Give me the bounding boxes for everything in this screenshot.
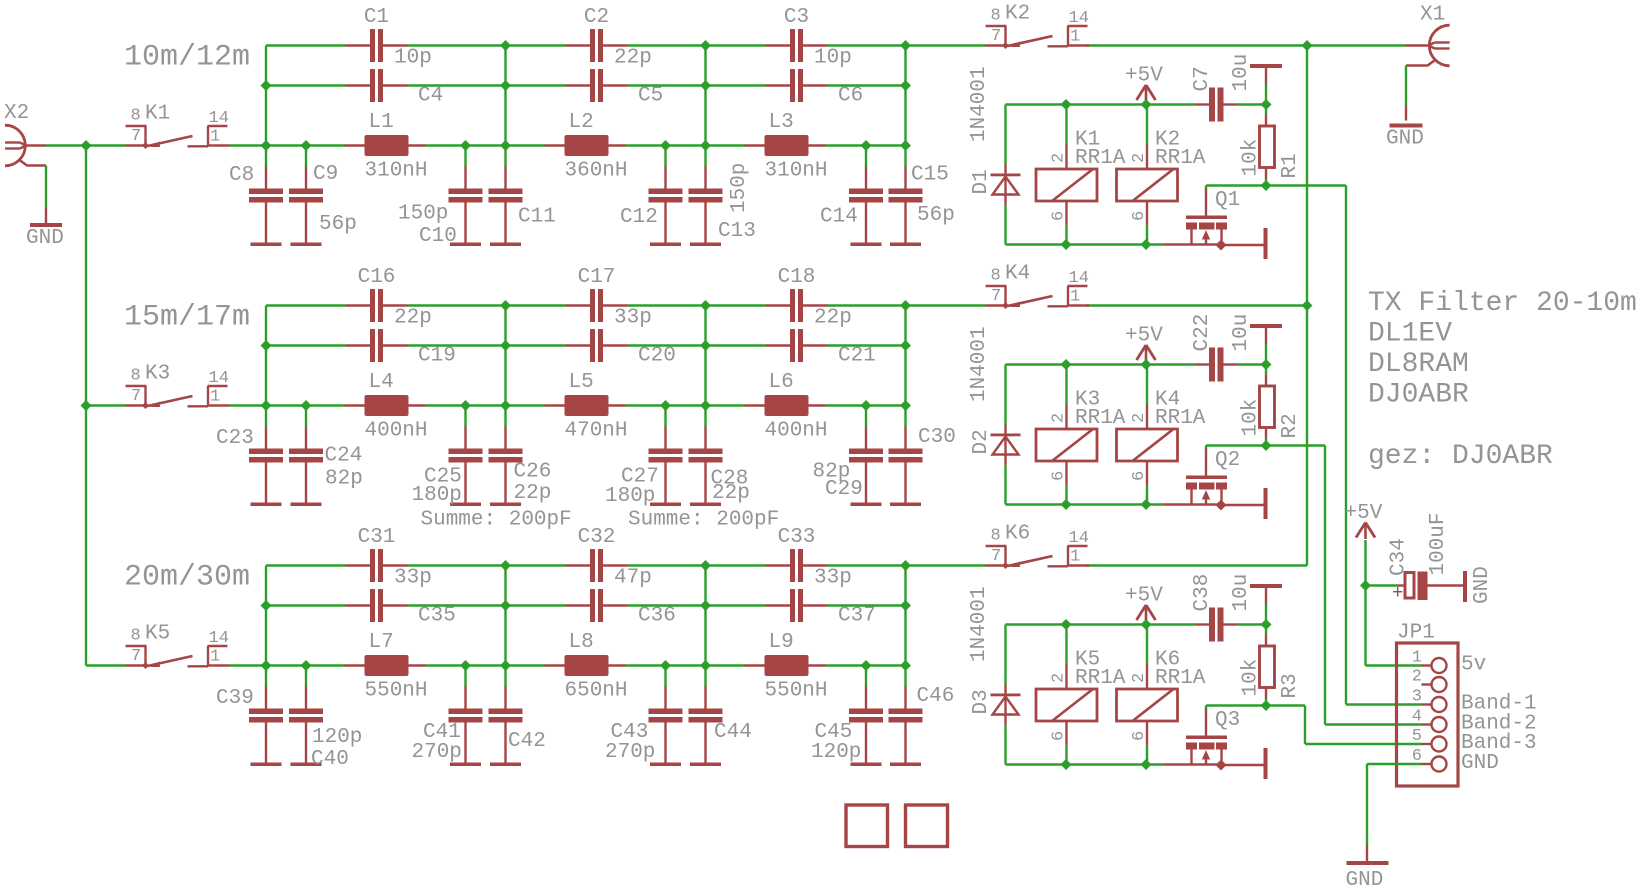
transistor Q3 bbox=[1205, 709, 1207, 736]
wire C38 to junction bbox=[1237, 623, 1266, 625]
svg-text:1N4001: 1N4001 bbox=[968, 326, 991, 402]
svg-text:C18: C18 bbox=[778, 266, 816, 289]
svg-text:33p: 33p bbox=[614, 306, 652, 329]
resistor R3 10k bbox=[1265, 625, 1267, 635]
svg-text:22p: 22p bbox=[614, 46, 652, 69]
pin 6 JP1 bbox=[1422, 763, 1432, 765]
wire relay K5 pin 2 bbox=[1065, 625, 1067, 665]
inductor L2 bbox=[545, 144, 565, 146]
capacitor C36 bbox=[566, 604, 591, 606]
wire X2 shield to ground bbox=[45, 166, 47, 209]
svg-text:C1: C1 bbox=[364, 6, 389, 29]
svg-text:10k: 10k bbox=[1240, 139, 1263, 177]
ground symbol right of C34 bbox=[1463, 571, 1467, 602]
svg-text:C19: C19 bbox=[418, 344, 456, 367]
svg-text:GND: GND bbox=[1386, 127, 1424, 150]
capacitor C23 bbox=[265, 427, 267, 449]
svg-text:7: 7 bbox=[991, 27, 1001, 46]
svg-text:RR1A: RR1A bbox=[1075, 407, 1126, 430]
svg-text:6: 6 bbox=[1130, 211, 1149, 221]
wire stub to C10 bbox=[464, 146, 466, 167]
svg-text:D3: D3 bbox=[970, 689, 993, 714]
svg-text:C44: C44 bbox=[714, 721, 752, 744]
svg-text:K5: K5 bbox=[145, 622, 170, 645]
junction dots top rail 15m/17m bbox=[500, 300, 511, 311]
inductor L8 bbox=[545, 664, 565, 666]
capacitor C42 bbox=[504, 687, 506, 709]
capacitor C27 bbox=[664, 427, 666, 449]
svg-text:C20: C20 bbox=[638, 344, 676, 367]
wire top rail 10m/12m bbox=[266, 44, 346, 46]
relay coil K2 bbox=[1146, 145, 1148, 170]
svg-text:L8: L8 bbox=[569, 631, 594, 654]
capacitor C20 bbox=[566, 344, 591, 346]
svg-text:1: 1 bbox=[1412, 649, 1422, 668]
svg-text:RR1A: RR1A bbox=[1075, 667, 1126, 690]
svg-text:TX Filter 20-10m: TX Filter 20-10m bbox=[1368, 288, 1637, 319]
svg-text:C7: C7 bbox=[1191, 66, 1214, 91]
svg-text:L7: L7 bbox=[369, 631, 394, 654]
wire relay K2 pin 2 bbox=[1146, 105, 1148, 145]
wire source Q3 bbox=[1164, 763, 1222, 765]
svg-text:2: 2 bbox=[1050, 673, 1069, 683]
svg-text:GND: GND bbox=[1471, 566, 1494, 604]
svg-text:C17: C17 bbox=[578, 266, 616, 289]
svg-text:C38: C38 bbox=[1191, 574, 1214, 612]
svg-text:R2: R2 bbox=[1279, 413, 1302, 438]
wire stub to C8 bbox=[265, 146, 267, 167]
wire stub to C46 bbox=[904, 666, 906, 687]
wire stub to C14 bbox=[865, 146, 867, 167]
wire stub to C9 bbox=[305, 146, 307, 167]
svg-text:C39: C39 bbox=[216, 687, 254, 710]
resistor R1 10k bbox=[1265, 105, 1267, 115]
svg-text:2: 2 bbox=[1412, 668, 1422, 687]
junction at source Q3 bbox=[1216, 760, 1227, 771]
pin 1 JP1 bbox=[1422, 664, 1432, 666]
svg-text:C31: C31 bbox=[358, 526, 396, 549]
svg-text:C33: C33 bbox=[778, 526, 816, 549]
svg-text:Summe: 200pF: Summe: 200pF bbox=[421, 508, 572, 531]
resistor R2 10k bbox=[1265, 365, 1267, 375]
svg-text:47p: 47p bbox=[614, 566, 652, 589]
inductor L7 bbox=[345, 664, 365, 666]
svg-text:GND: GND bbox=[26, 227, 64, 250]
inductor L6 bbox=[745, 404, 765, 406]
svg-text:C21: C21 bbox=[838, 344, 876, 367]
junction dots top rail 20m/30m bbox=[500, 560, 511, 571]
wire gate Q2 bbox=[1206, 444, 1266, 446]
svg-text:22p: 22p bbox=[514, 482, 552, 505]
wire relay K6 pin 6 bbox=[1146, 745, 1148, 765]
svg-text:8: 8 bbox=[131, 367, 141, 386]
wire source Q1 bbox=[1164, 243, 1222, 245]
relay contact K2 bbox=[985, 44, 1007, 46]
capacitor C44 bbox=[704, 687, 706, 709]
junction dots driver rail D1 block bbox=[1061, 99, 1072, 110]
capacitor C22 10u bbox=[1196, 363, 1209, 365]
capacitor C33 bbox=[766, 564, 791, 566]
relay coil K5 bbox=[1065, 665, 1067, 690]
capacitor C25 bbox=[464, 427, 466, 449]
capacitor C37 bbox=[766, 604, 791, 606]
svg-text:K6: K6 bbox=[1005, 522, 1030, 545]
svg-text:470nH: 470nH bbox=[565, 419, 628, 442]
svg-text:180p: 180p bbox=[412, 484, 462, 507]
svg-text:56p: 56p bbox=[319, 213, 357, 236]
wire main rail 15m/17m bbox=[229, 404, 345, 406]
transistor Q2 bbox=[1205, 449, 1207, 476]
svg-text:L3: L3 bbox=[769, 111, 794, 134]
wire band-1 control net bbox=[1266, 184, 1346, 186]
ground symbol X2 bbox=[45, 208, 47, 223]
frame square 1 bbox=[846, 805, 888, 847]
svg-text:GND: GND bbox=[1461, 752, 1499, 775]
svg-text:K2: K2 bbox=[1005, 2, 1030, 25]
svg-text:550nH: 550nH bbox=[765, 679, 828, 702]
wire driver supply rail D1 block bbox=[1006, 103, 1197, 105]
svg-text:C13: C13 bbox=[718, 220, 756, 243]
svg-text:400nH: 400nH bbox=[365, 419, 428, 442]
svg-text:2: 2 bbox=[1050, 153, 1069, 163]
svg-text:X1: X1 bbox=[1420, 3, 1445, 26]
svg-text:550nH: 550nH bbox=[365, 679, 428, 702]
relay contact K1 bbox=[125, 144, 147, 146]
junction dots top rail 10m/12m bbox=[500, 40, 511, 51]
svg-text:K1: K1 bbox=[145, 102, 170, 125]
svg-text:650nH: 650nH bbox=[565, 679, 628, 702]
svg-text:10p: 10p bbox=[814, 46, 852, 69]
svg-text:C36: C36 bbox=[638, 604, 676, 627]
svg-text:Q2: Q2 bbox=[1215, 449, 1240, 472]
capacitor C28 bbox=[704, 427, 706, 449]
wire stub to C42 bbox=[504, 666, 506, 687]
wire stub to C45 bbox=[865, 666, 867, 687]
svg-text:1: 1 bbox=[1070, 28, 1080, 47]
wire stub to C30 bbox=[904, 406, 906, 427]
capacitor C7 10u bbox=[1196, 103, 1209, 105]
svg-text:180p: 180p bbox=[605, 485, 655, 508]
svg-text:14: 14 bbox=[1069, 9, 1089, 28]
svg-text:C3: C3 bbox=[784, 6, 809, 29]
svg-text:DJ0ABR: DJ0ABR bbox=[1368, 380, 1469, 411]
junction dots coupling rail 10m/12m bbox=[261, 80, 272, 91]
wire stub to C41 bbox=[464, 666, 466, 687]
relay coil K4 bbox=[1146, 405, 1148, 430]
svg-text:10k: 10k bbox=[1240, 399, 1263, 437]
wire relay K1 pin 6 bbox=[1065, 225, 1067, 245]
capacitor C13 bbox=[704, 167, 706, 189]
capacitor C32 bbox=[566, 564, 591, 566]
capacitor C45 bbox=[865, 687, 867, 709]
svg-text:C4: C4 bbox=[418, 84, 443, 107]
wire stub to C24 bbox=[305, 406, 307, 427]
capacitor C29 bbox=[865, 427, 867, 449]
svg-text:33p: 33p bbox=[394, 566, 432, 589]
svg-text:2: 2 bbox=[1130, 413, 1149, 423]
wire stub to C27 bbox=[664, 406, 666, 427]
wire gate Q1 bbox=[1206, 184, 1266, 186]
capacitor C46 bbox=[904, 687, 906, 709]
svg-text:2: 2 bbox=[1130, 153, 1149, 163]
svg-text:33p: 33p bbox=[814, 566, 852, 589]
svg-text:Q1: Q1 bbox=[1215, 189, 1240, 212]
svg-text:6: 6 bbox=[1050, 471, 1069, 481]
svg-text:RR1A: RR1A bbox=[1155, 407, 1206, 430]
capacitor C3 bbox=[766, 44, 791, 46]
svg-text:R3: R3 bbox=[1279, 673, 1302, 698]
svg-text:1: 1 bbox=[1070, 288, 1080, 307]
svg-text:14: 14 bbox=[209, 369, 229, 388]
svg-text:7: 7 bbox=[991, 547, 1001, 566]
inductor L1 bbox=[345, 144, 365, 146]
capacitor C17 bbox=[566, 304, 591, 306]
svg-text:5: 5 bbox=[1412, 727, 1422, 746]
capacitor C24 bbox=[305, 427, 307, 449]
svg-text:14: 14 bbox=[1069, 529, 1089, 548]
capacitor C8 bbox=[265, 167, 267, 189]
wire vertical columns 20m/30m bbox=[265, 566, 267, 666]
relay coil K3 bbox=[1065, 405, 1067, 430]
connector JP1 bbox=[1397, 643, 1459, 786]
svg-text:1: 1 bbox=[1070, 548, 1080, 567]
wire stub to C26 bbox=[504, 406, 506, 427]
wire top rail 15m/17m bbox=[266, 304, 346, 306]
svg-text:8: 8 bbox=[131, 627, 141, 646]
wire stub to C39 bbox=[265, 666, 267, 687]
svg-text:C34: C34 bbox=[1388, 538, 1411, 576]
wire vertical columns 10m/12m bbox=[265, 46, 267, 146]
junction at C34 bbox=[1360, 580, 1371, 591]
wire C7 to junction bbox=[1237, 103, 1266, 105]
capacitor C14 bbox=[865, 167, 867, 189]
svg-text:8: 8 bbox=[991, 7, 1001, 26]
svg-text:14: 14 bbox=[1069, 269, 1089, 288]
svg-text:C16: C16 bbox=[358, 266, 396, 289]
diode D1 1N4001 bbox=[1004, 165, 1006, 206]
junction dots main rail 15m/17m bbox=[81, 400, 92, 411]
wire gate Q3 bbox=[1206, 704, 1266, 706]
capacitor C12 bbox=[664, 167, 666, 189]
capacitor C2 bbox=[566, 44, 591, 46]
wire driver ground rail D2 block bbox=[1006, 503, 1165, 505]
capacitor C10 bbox=[464, 167, 466, 189]
svg-text:Summe: 200pF: Summe: 200pF bbox=[628, 508, 779, 531]
svg-text:22p: 22p bbox=[394, 306, 432, 329]
wire JP1 pin6 to ground bbox=[1367, 763, 1422, 765]
junction at source Q2 bbox=[1216, 500, 1227, 511]
svg-text:C37: C37 bbox=[838, 604, 876, 627]
svg-text:+: + bbox=[1392, 582, 1403, 604]
wire relay K1 pin 2 bbox=[1065, 105, 1067, 145]
svg-text:8: 8 bbox=[991, 527, 1001, 546]
diode D2 1N4001 bbox=[1004, 425, 1006, 466]
supply +5V symbol bbox=[1145, 358, 1147, 365]
pin 2 JP1 bbox=[1422, 683, 1432, 685]
capacitor C5 bbox=[566, 84, 591, 86]
svg-text:C14: C14 bbox=[820, 205, 858, 228]
transistor Q1 bbox=[1205, 189, 1207, 216]
relay coil K6 bbox=[1146, 665, 1148, 690]
ground symbol bottom bbox=[1366, 845, 1368, 861]
svg-text:D2: D2 bbox=[970, 429, 993, 454]
svg-text:6: 6 bbox=[1050, 731, 1069, 741]
svg-text:1N4001: 1N4001 bbox=[968, 66, 991, 142]
svg-text:+5V: +5V bbox=[1125, 324, 1163, 347]
svg-text:JP1: JP1 bbox=[1397, 621, 1435, 644]
svg-text:C24: C24 bbox=[325, 444, 363, 467]
svg-text:GND: GND bbox=[1346, 869, 1384, 892]
svg-text:C30: C30 bbox=[918, 426, 956, 449]
pin 4 JP1 bbox=[1422, 723, 1432, 725]
svg-text:C26: C26 bbox=[514, 460, 552, 483]
wire relay K6 pin 2 bbox=[1146, 625, 1148, 665]
svg-text:14: 14 bbox=[209, 109, 229, 128]
svg-text:6: 6 bbox=[1130, 731, 1149, 741]
svg-text:R1: R1 bbox=[1279, 153, 1302, 178]
svg-text:C5: C5 bbox=[638, 84, 663, 107]
wire stub to C43 bbox=[664, 666, 666, 687]
svg-text:120p: 120p bbox=[312, 726, 362, 749]
svg-text:7: 7 bbox=[131, 387, 141, 406]
wire stub to C29 bbox=[865, 406, 867, 427]
capacitor C1 bbox=[346, 44, 371, 46]
capacitor C11 bbox=[504, 167, 506, 189]
wire relay K2 pin 6 bbox=[1146, 225, 1148, 245]
capacitor C30 bbox=[904, 427, 906, 449]
capacitor C19 bbox=[346, 344, 371, 346]
junction at source Q1 bbox=[1216, 240, 1227, 251]
wire diode D3 anode bbox=[1004, 725, 1006, 765]
capacitor C6 bbox=[766, 84, 791, 86]
svg-text:DL8RAM: DL8RAM bbox=[1368, 349, 1469, 380]
svg-text:C11: C11 bbox=[518, 205, 556, 228]
capacitor C18 bbox=[766, 304, 791, 306]
relay coil K1 bbox=[1065, 145, 1067, 170]
svg-text:360nH: 360nH bbox=[565, 159, 628, 182]
capacitor C26 bbox=[504, 427, 506, 449]
junction dots driver rail D2 block bbox=[1061, 359, 1072, 370]
svg-text:5v: 5v bbox=[1461, 653, 1486, 676]
wire stub to C11 bbox=[504, 146, 506, 167]
svg-text:C23: C23 bbox=[216, 427, 254, 450]
svg-text:RR1A: RR1A bbox=[1155, 667, 1206, 690]
svg-text:C15: C15 bbox=[911, 163, 949, 186]
ground symbol at Q3 bbox=[1264, 748, 1268, 779]
svg-text:X2: X2 bbox=[4, 102, 29, 125]
connector X2 bbox=[5, 125, 25, 166]
inductor L9 bbox=[745, 664, 765, 666]
diode D3 1N4001 bbox=[1004, 685, 1006, 726]
inductor L3 bbox=[745, 144, 765, 146]
svg-text:D1: D1 bbox=[970, 169, 993, 194]
inductor L4 bbox=[345, 404, 365, 406]
svg-text:C29: C29 bbox=[825, 478, 863, 501]
svg-text:8: 8 bbox=[131, 107, 141, 126]
svg-text:7: 7 bbox=[131, 127, 141, 146]
capacitor C41 bbox=[464, 687, 466, 709]
svg-text:56p: 56p bbox=[917, 204, 955, 227]
capacitor C38 10u bbox=[1196, 623, 1209, 625]
svg-text:L2: L2 bbox=[569, 111, 594, 134]
pin 5 JP1 bbox=[1422, 743, 1432, 745]
svg-text:DL1EV: DL1EV bbox=[1368, 319, 1452, 350]
svg-text:6: 6 bbox=[1130, 471, 1149, 481]
wire C22 to junction bbox=[1237, 363, 1266, 365]
svg-text:L4: L4 bbox=[369, 371, 394, 394]
svg-text:3: 3 bbox=[1412, 688, 1422, 707]
relay contact K6 bbox=[985, 564, 1007, 566]
wire driver ground rail D3 block bbox=[1006, 763, 1165, 765]
svg-text:RR1A: RR1A bbox=[1075, 147, 1126, 170]
svg-text:7: 7 bbox=[131, 647, 141, 666]
connector X1 bbox=[1429, 25, 1449, 66]
capacitor C15 bbox=[904, 167, 906, 189]
svg-text:C9: C9 bbox=[313, 163, 338, 186]
svg-text:C8: C8 bbox=[229, 164, 254, 187]
wire output bus to X1 bbox=[1306, 46, 1308, 566]
svg-text:C10: C10 bbox=[419, 225, 457, 248]
wire stub to C12 bbox=[664, 146, 666, 167]
svg-text:10u: 10u bbox=[1230, 574, 1253, 612]
svg-text:1: 1 bbox=[210, 648, 220, 667]
wire diode D1 anode bbox=[1004, 205, 1006, 245]
svg-text:100uF: 100uF bbox=[1427, 512, 1450, 575]
wire stub to C13 bbox=[704, 146, 706, 167]
inductor L5 bbox=[545, 404, 565, 406]
pin 3 JP1 bbox=[1422, 703, 1432, 705]
svg-text:8: 8 bbox=[991, 267, 1001, 286]
svg-text:+5V: +5V bbox=[1125, 584, 1163, 607]
wire stub to C40 bbox=[305, 666, 307, 687]
capacitor C16 bbox=[346, 304, 371, 306]
svg-text:gez: DJ0ABR: gez: DJ0ABR bbox=[1368, 441, 1553, 472]
junction dots main rail 10m/12m bbox=[81, 140, 92, 151]
svg-text:310nH: 310nH bbox=[365, 159, 428, 182]
wire relay K3 pin 6 bbox=[1065, 485, 1067, 505]
wire diode D3 cathode bbox=[1004, 625, 1006, 685]
wire stub to C28 bbox=[704, 406, 706, 427]
capacitor C43 bbox=[664, 687, 666, 709]
svg-text:L6: L6 bbox=[769, 371, 794, 394]
svg-text:L9: L9 bbox=[769, 631, 794, 654]
svg-text:14: 14 bbox=[209, 629, 229, 648]
svg-text:+5V: +5V bbox=[1125, 64, 1163, 87]
svg-text:C32: C32 bbox=[578, 526, 616, 549]
ground symbol above filter cap bbox=[1265, 605, 1267, 625]
svg-text:22p: 22p bbox=[814, 306, 852, 329]
svg-text:22p: 22p bbox=[712, 482, 750, 505]
ground symbol above filter cap bbox=[1265, 345, 1267, 365]
ground symbol above filter cap bbox=[1265, 85, 1267, 105]
svg-text:400nH: 400nH bbox=[765, 419, 828, 442]
wire vertical columns 15m/17m bbox=[265, 306, 267, 406]
wire relay K5 pin 6 bbox=[1065, 745, 1067, 765]
wire source Q2 bbox=[1164, 503, 1222, 505]
ground symbol at Q1 bbox=[1264, 228, 1268, 259]
capacitor C40 bbox=[305, 687, 307, 709]
junction dots driver rail D3 block bbox=[1061, 619, 1072, 630]
wire coupling rail 10m/12m bbox=[266, 84, 346, 86]
wire X2 to switches bus bbox=[46, 144, 125, 146]
svg-text:15m/17m: 15m/17m bbox=[124, 301, 250, 335]
wire X1 shield to ground bbox=[1405, 66, 1407, 106]
svg-text:C35: C35 bbox=[418, 604, 456, 627]
wire main rail 20m/30m bbox=[229, 664, 345, 666]
wire diode D1 cathode bbox=[1004, 105, 1006, 165]
wire relay K4 pin 2 bbox=[1146, 365, 1148, 405]
svg-text:C42: C42 bbox=[508, 730, 546, 753]
